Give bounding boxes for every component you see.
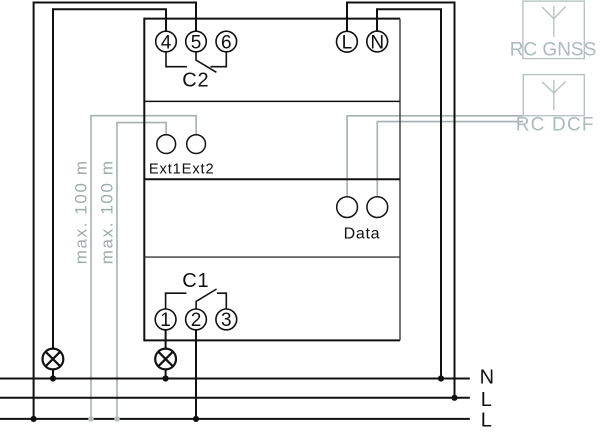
svg-text:4: 4 — [161, 32, 172, 53]
node: gray terminal dot on L bus for Ext1 wire — [88, 416, 94, 422]
wire: terminal L up and right side down to L bus — [347, 3, 455, 398]
junction: lamp 2 on N bus — [163, 375, 169, 381]
svg-text:L: L — [342, 33, 353, 54]
svg-text:C1: C1 — [182, 270, 209, 292]
svg-text:L: L — [481, 409, 492, 431]
junction: N wire on N bus — [438, 375, 444, 381]
wire: gray antenna data line 1 (Data left terminal to RC DCF box) — [347, 116, 523, 197]
divider line 2 — [144, 178, 400, 180]
terminal 4 — [156, 31, 177, 53]
contact C1: stub from terminal 1 — [166, 293, 187, 309]
contact C1: blade from terminal 2 — [196, 289, 217, 309]
device box (time switch) — [144, 18, 400, 342]
antenna symbol RC GNSS — [542, 6, 566, 37]
contact C2: stub from terminal 6 — [210, 52, 226, 67]
antenna RC GNSS box — [523, 1, 584, 59]
svg-text:3: 3 — [221, 310, 232, 331]
wire: N bus — [0, 378, 470, 380]
svg-text:2: 2 — [191, 310, 202, 331]
terminal 2 — [186, 309, 207, 331]
terminal Ext2 — [187, 135, 206, 154]
terminal 6 — [216, 31, 237, 53]
wire: L bus (middle) — [0, 397, 470, 399]
wire: switched line from terminal 4 to lamp 1 — [53, 9, 166, 348]
svg-text:5: 5 — [191, 32, 202, 53]
antenna symbol RC DCF — [542, 80, 566, 110]
wire: gray antenna data line 2 (Data right terminal to RC DCF box) — [377, 122, 523, 197]
svg-text:N: N — [370, 32, 384, 53]
divider line 1 — [144, 100, 400, 102]
terminal Ext1 — [157, 135, 176, 154]
junction: left L wire on bottom L bus — [30, 416, 36, 422]
svg-text:6: 6 — [221, 32, 232, 53]
svg-text:L: L — [481, 389, 492, 411]
svg-text:max. 100 m: max. 100 m — [72, 159, 91, 264]
wire: terminal 1 down to lamp 2 — [165, 330, 167, 349]
wire: L bus (bottom) — [0, 418, 470, 420]
terminal 1 — [155, 309, 176, 331]
lamp 1 — [43, 349, 64, 370]
contact C1: stub from terminal 3 — [217, 293, 226, 309]
svg-text:RC DCF: RC DCF — [516, 114, 595, 135]
svg-text:Data: Data — [344, 225, 381, 242]
terminal N — [367, 31, 388, 53]
terminal L — [337, 31, 358, 53]
wire: lamp 1 to N bus — [52, 369, 54, 378]
terminal 5 — [186, 31, 207, 53]
node: gray terminal dot on L bus for Ext2 wire — [114, 416, 120, 422]
terminal Data 2 — [367, 197, 388, 218]
wire: L feed from terminal 5 down left side to bottom L bus — [34, 3, 196, 419]
wire: gray external input Ext1 (inner-left vertical) — [117, 123, 166, 419]
svg-text:RC GNSS: RC GNSS — [510, 39, 597, 60]
wire: lamp 2 to N bus — [165, 370, 167, 379]
junction: L wire on middle L bus — [451, 395, 457, 401]
svg-text:C2: C2 — [182, 69, 209, 91]
junction: terminal 2 wire on bottom L bus — [193, 416, 199, 422]
wire: gray external input Ext2 (outer-left vertical + horizontal into box) — [91, 116, 196, 419]
junction: lamp 1 on N bus — [50, 375, 56, 381]
wire: terminal N up and down to N bus — [377, 9, 441, 378]
terminal Data 1 — [337, 197, 358, 218]
antenna RC DCF box — [523, 75, 584, 116]
svg-text:1: 1 — [160, 310, 171, 331]
lamp 2 — [155, 349, 176, 370]
contact C2: stub from terminal 4 — [166, 52, 187, 67]
svg-text:Ext1Ext2: Ext1Ext2 — [149, 162, 215, 178]
svg-text:N: N — [480, 367, 494, 389]
svg-text:max. 100 m: max. 100 m — [98, 159, 117, 264]
terminal 3 — [216, 309, 237, 331]
wire: terminal 2 down to bottom L bus — [195, 330, 197, 419]
contact C2: blade from terminal 5 — [196, 52, 216, 73]
divider line 3 — [144, 256, 400, 258]
